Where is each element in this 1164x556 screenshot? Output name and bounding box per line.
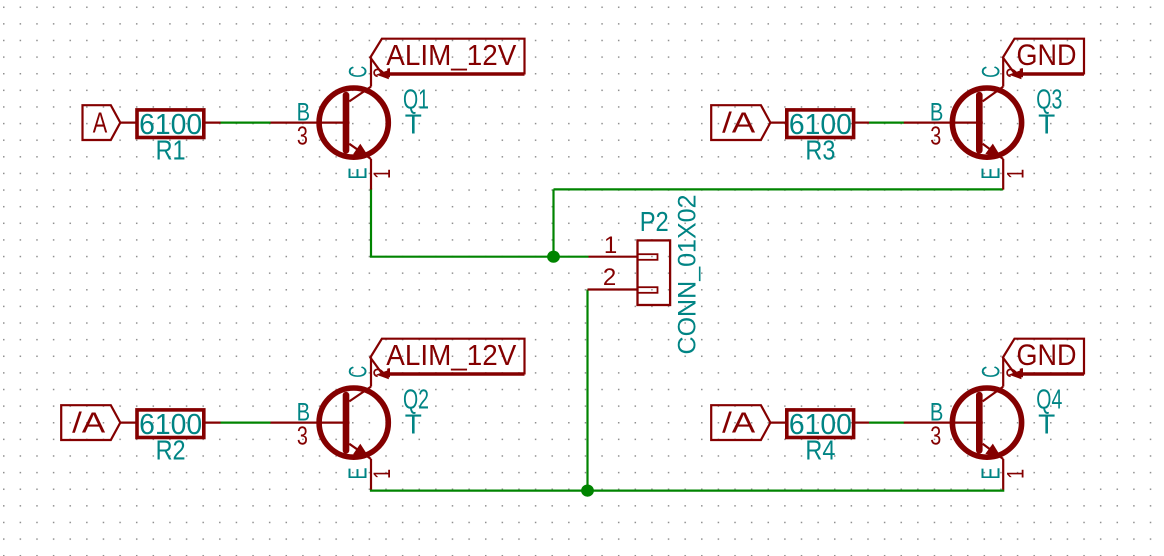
svg-text:3: 3 [297, 121, 308, 151]
P2 reference [640, 206, 669, 237]
Q1 pin number 2 [369, 67, 396, 78]
svg-text:GND: GND [1017, 39, 1077, 72]
Q4 pin name B [930, 398, 944, 426]
svg-text:R1: R1 [156, 135, 186, 166]
ALIM_12V bottom arrow tick [387, 369, 389, 375]
Q2 pin number 1 [369, 469, 396, 479]
transistor Q1 [271, 57, 389, 189]
Q2 value T [405, 408, 422, 439]
ALIM_12V top text [386, 40, 517, 72]
svg-text:1: 1 [1002, 469, 1029, 479]
Q3 pin number 3 [930, 121, 941, 151]
svg-text:T: T [1038, 108, 1055, 139]
transistor Q3 [904, 57, 1022, 189]
svg-text:/A: /A [722, 108, 756, 140]
Q2 pin number 2 [369, 367, 396, 378]
P2 pin 1 line [589, 256, 638, 258]
R1 right pin [204, 121, 221, 123]
GND bottom arrow tick [1020, 369, 1022, 375]
power flag ALIM_12V bottom [370, 339, 524, 374]
Q2 reference Q2 [403, 383, 429, 414]
Q2 pin name C [344, 366, 372, 378]
transistor Q2 [271, 357, 389, 489]
connector P2 body [638, 240, 671, 305]
Q1 pin name E [342, 168, 372, 180]
net label A [83, 105, 121, 140]
GND bottom arrow head [1010, 371, 1021, 379]
svg-text:E: E [976, 168, 1006, 180]
R4 value 6100 [789, 409, 852, 441]
transistor Q4 [904, 357, 1022, 489]
R4 right pin [854, 422, 869, 424]
GND top arrow line [1021, 73, 1084, 75]
P2 pin 2 line [588, 288, 638, 290]
label /A text [722, 108, 756, 140]
svg-text:GND: GND [1017, 339, 1077, 372]
ALIM_12V bottom arrow line [388, 374, 524, 376]
resistor R4 [787, 410, 854, 438]
Q4 reference Q4 [1036, 383, 1062, 414]
Q1 reference Q1 [403, 83, 429, 114]
wire R2 to Q2 base [221, 422, 271, 424]
svg-text:/A: /A [72, 408, 106, 440]
ALIM_12V bottom arrow head [378, 371, 389, 379]
R2 value 6100 [139, 409, 202, 441]
Q4 pin name E [976, 468, 1006, 480]
junction node 1 [547, 251, 560, 263]
Q1 value T [405, 108, 422, 139]
svg-text:R3: R3 [805, 135, 835, 166]
R2 right pin [204, 422, 221, 424]
wire node down to junction 1 [552, 189, 554, 256]
net label /A (row 2 right) [711, 405, 770, 440]
svg-text:CONN_01X02: CONN_01X02 [674, 195, 702, 355]
resistor R1 [137, 110, 204, 138]
ALIM_12V top arrow head [378, 71, 389, 79]
Q3 pin name B [930, 98, 944, 126]
label A text [93, 108, 108, 140]
svg-text:T: T [405, 408, 422, 439]
R4 reference R4 [805, 435, 835, 466]
svg-text:T: T [1038, 408, 1055, 439]
Q1 pin number 3 [297, 121, 308, 151]
GND top arrow tick [1020, 69, 1022, 75]
ALIM_12V top arrow line [388, 73, 524, 75]
R3 reference R3 [805, 135, 835, 166]
wire R4 to Q4 base [869, 422, 904, 424]
junction node 2 [581, 485, 594, 497]
svg-text:1: 1 [369, 169, 396, 179]
Q2 pin name B [297, 398, 311, 426]
R2 left pin [120, 422, 137, 424]
GND bottom text [1017, 339, 1077, 372]
svg-text:E: E [342, 468, 372, 480]
P2 value CONN_01X02 [674, 195, 702, 355]
Q4 value T [1038, 408, 1055, 439]
wire R3 to Q3 base [869, 121, 904, 123]
svg-text:E: E [342, 168, 372, 180]
svg-text:3: 3 [930, 121, 941, 151]
net label /A (row 1 right) [711, 105, 770, 140]
Q3 reference Q3 [1036, 83, 1062, 114]
svg-text:/A: /A [722, 408, 756, 440]
svg-text:ALIM_12V: ALIM_12V [386, 340, 517, 372]
svg-text:1: 1 [369, 469, 396, 479]
P2 pin 2 contact [638, 287, 658, 293]
label /A text [72, 408, 106, 440]
R3 left pin [770, 121, 786, 123]
wire R1 to Q1 base [221, 121, 271, 123]
power flag GND top [1003, 39, 1084, 74]
GND bottom arrow line [1021, 374, 1084, 376]
wire P2 pin 2 down [586, 290, 588, 491]
Q1 pin name B [297, 98, 311, 126]
Q4 pin name C [978, 366, 1006, 378]
GND top arrow head [1010, 71, 1021, 79]
Q4 pin number 1 [1002, 469, 1029, 479]
wire Q1 emitter to P2 pin 1 [370, 256, 589, 258]
R3 value 6100 [789, 109, 852, 141]
R1 reference R1 [156, 135, 186, 166]
GND top text [1017, 39, 1077, 72]
Q1 pin number 1 [369, 169, 396, 179]
svg-text:R4: R4 [805, 435, 835, 466]
svg-text:ALIM_12V: ALIM_12V [386, 40, 517, 72]
ALIM_12V bottom text [386, 340, 517, 372]
R3 right pin [854, 121, 869, 123]
power flag ALIM_12V top [370, 39, 524, 74]
wire bottom bus Q2 to Q4 emitters [370, 490, 1004, 492]
svg-text:P2: P2 [640, 206, 669, 237]
Q2 pin number 3 [297, 421, 308, 451]
R1 left pin [120, 121, 137, 123]
Q4 pin number 3 [930, 421, 941, 451]
net label /A (row 2 left) [61, 405, 120, 440]
power flag GND bottom [1003, 339, 1084, 374]
Q3 value T [1038, 108, 1055, 139]
svg-text:1: 1 [604, 232, 617, 259]
wire Q1 emitter down [370, 188, 372, 256]
svg-text:T: T [405, 108, 422, 139]
svg-text:3: 3 [297, 421, 308, 451]
P2 pin 1 contact [638, 254, 658, 260]
R1 value 6100 [139, 109, 202, 141]
Q1 pin name C [344, 66, 372, 78]
svg-text:2: 2 [603, 264, 616, 291]
R2 reference R2 [156, 435, 186, 466]
svg-text:E: E [976, 468, 1006, 480]
resistor R2 [137, 410, 204, 438]
P2 pin number 2 [603, 264, 616, 291]
resistor R3 [787, 110, 854, 138]
Q3 pin number 2 [1002, 67, 1029, 78]
Q2 pin name E [342, 468, 372, 480]
wire Q3 emitter horizontal [554, 188, 1004, 190]
Q3 pin number 1 [1002, 169, 1029, 179]
Q3 pin name E [976, 168, 1006, 180]
svg-text:A: A [93, 108, 108, 140]
svg-text:R2: R2 [156, 435, 186, 466]
Q4 pin number 2 [1002, 367, 1029, 378]
P2 pin number 1 [604, 232, 617, 259]
svg-text:1: 1 [1002, 169, 1029, 179]
label /A text [722, 408, 756, 440]
R4 left pin [770, 422, 786, 424]
svg-text:3: 3 [930, 421, 941, 451]
ALIM_12V top arrow tick [387, 69, 389, 75]
Q3 pin name C [978, 66, 1006, 78]
